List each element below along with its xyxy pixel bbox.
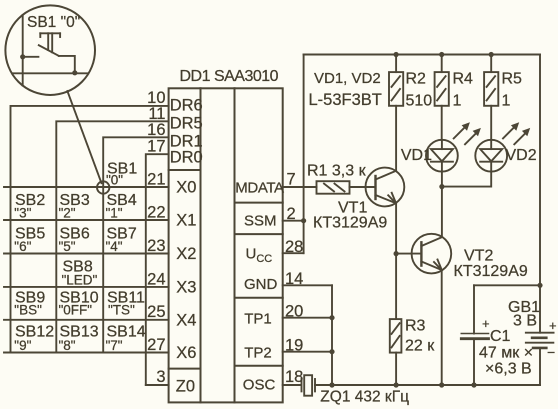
svg-text:Z0: Z0: [176, 377, 195, 395]
svg-text:DR5: DR5: [170, 114, 203, 132]
svg-text:20: 20: [285, 302, 303, 320]
node: dot at right rail: [537, 283, 542, 288]
wire: VD1 cathode down: [441, 172, 443, 237]
wire: Ucc pin 28: [283, 252, 304, 254]
wire: X2 row: [4, 253, 169, 255]
svg-text:VD1: VD1: [401, 147, 432, 164]
svg-text:X4: X4: [176, 311, 196, 329]
svg-text:TP1: TP1: [244, 311, 272, 328]
node: dot R5 rail: [489, 52, 494, 57]
svg-text:GND: GND: [244, 276, 278, 293]
wire: bottom rail: [315, 384, 540, 386]
svg-text:КТ3129А9: КТ3129А9: [313, 215, 387, 232]
svg-text:"0": "0": [106, 173, 123, 188]
wire: TP2 pin 19: [283, 351, 332, 353]
svg-text:X2: X2: [176, 245, 196, 263]
wire: X6 row: [4, 352, 169, 354]
wire: R4 to rail: [441, 55, 443, 73]
wire: C1 top lead: [473, 285, 475, 333]
svg-text:"9": "9": [14, 338, 31, 353]
wire: X1 row: [4, 219, 169, 221]
svg-text:VT2: VT2: [464, 248, 493, 265]
svg-text:16: 16: [147, 121, 165, 139]
svg-text:24: 24: [147, 270, 165, 288]
LED VD2: [475, 122, 530, 171]
svg-text:SB1 "0": SB1 "0": [27, 14, 80, 31]
node: VT1-VT2-R3 junction: [394, 251, 399, 256]
wire: supply drop to pins 2 and 28: [303, 55, 305, 254]
resistor R2: [389, 72, 403, 106]
svg-text:VD2: VD2: [506, 147, 537, 164]
IC DD1 SAA3010 body: [169, 88, 283, 402]
node: dot R3 rail: [394, 382, 399, 387]
svg-text:"6": "6": [14, 239, 31, 254]
transistor VT2: [412, 234, 452, 274]
svg-text:510: 510: [406, 93, 433, 110]
wire: R1 to VT1 base: [350, 186, 376, 188]
transistor VT1: [366, 168, 405, 207]
wire: pointer line from magnifier to SB1 position: [67, 91, 101, 183]
svg-text:R3: R3: [405, 318, 426, 335]
svg-text:22: 22: [147, 203, 165, 221]
battery GB1: [526, 333, 554, 348]
wire: SSM pin 2: [283, 220, 304, 222]
resistor R1: [317, 181, 350, 194]
node: junction VT2 at rail: [439, 382, 444, 387]
svg-text:28: 28: [285, 238, 303, 256]
wire: R5 to rail: [490, 55, 492, 73]
svg-text:"TS": "TS": [108, 303, 135, 318]
svg-text:7: 7: [287, 171, 296, 189]
svg-text:UCC: UCC: [246, 246, 273, 266]
wire: VD2 cathode down and across: [442, 172, 491, 187]
svg-text:47 мк ×: 47 мк ×: [479, 345, 533, 362]
wire: right rail lower: [539, 348, 541, 385]
svg-text:×6,3 В: ×6,3 В: [485, 361, 532, 378]
wire: TP1 pin 20: [283, 317, 332, 319]
wire: R5 to VD2: [490, 106, 492, 140]
wire: DR0 pin 17 line: [146, 154, 169, 385]
node: junction at bottom rail: [329, 382, 334, 387]
magnifier circle (inset detail of SB1): [5, 5, 95, 95]
svg-text:27: 27: [147, 336, 165, 354]
svg-text:"BS": "BS": [14, 303, 42, 318]
svg-text:22 к: 22 к: [405, 338, 435, 355]
svg-text:R2: R2: [406, 71, 427, 88]
wire: R2 to rail: [395, 55, 397, 73]
svg-text:25: 25: [147, 303, 165, 321]
wire: right contact lead of SB1: [59, 56, 75, 73]
wire: magnified DR column segment: [22, 15, 24, 85]
wire: DR6 pin 10 line: [11, 106, 169, 353]
svg-text:19: 19: [285, 336, 303, 354]
svg-text:DR6: DR6: [170, 96, 203, 114]
svg-text:"2": "2": [59, 206, 76, 221]
switch SB1 push actuator: [40, 33, 60, 52]
wire: junction to R3: [395, 254, 397, 320]
svg-text:"0FF": "0FF": [59, 303, 93, 318]
wire: X0 row: [4, 186, 169, 188]
svg-text:"7": "7": [106, 338, 123, 353]
LED VD1: [426, 122, 481, 171]
wire: Z0 pin 3 line: [146, 384, 169, 386]
svg-text:"4": "4": [106, 239, 123, 254]
svg-text:3: 3: [156, 368, 165, 386]
node: dot R4 rail: [439, 52, 444, 57]
svg-text:X1: X1: [176, 212, 196, 230]
wire: VT2 collector to bottom rail: [441, 270, 443, 385]
wire: MDATA pin 7 to R1: [283, 186, 317, 188]
svg-text:OSC: OSC: [243, 377, 276, 394]
node: junction pin19: [329, 349, 334, 354]
wire: X4 row: [4, 319, 169, 321]
svg-text:КТ3129А9: КТ3129А9: [454, 263, 528, 280]
svg-text:MDATA: MDATA: [235, 179, 284, 196]
svg-text:SSM: SSM: [244, 213, 277, 230]
wire: left contact lead of SB1: [23, 56, 39, 58]
wire: ground group vertical: [331, 285, 333, 385]
svg-text:R4: R4: [453, 71, 474, 88]
wire: right rail upper: [539, 55, 541, 333]
svg-text:VD1, VD2: VD1, VD2: [314, 70, 381, 87]
resistor R3: [390, 319, 402, 353]
wire: C1 branch horizontal: [474, 284, 540, 286]
wire: C1 bottom lead: [473, 339, 475, 385]
crystal ZQ1: [302, 375, 316, 396]
svg-text:L-53F3BT: L-53F3BT: [309, 91, 382, 109]
wire: DR1 pin 16 line: [103, 137, 168, 352]
svg-text:1: 1: [453, 93, 462, 110]
resistor R5: [484, 72, 498, 106]
svg-text:DR1: DR1: [170, 132, 203, 150]
wire: top power rail: [304, 54, 540, 56]
svg-text:X6: X6: [176, 344, 196, 362]
svg-text:"8": "8": [59, 338, 76, 353]
svg-text:17: 17: [147, 138, 165, 156]
svg-text:ZQ1 432 кГц: ZQ1 432 кГц: [320, 389, 409, 406]
node: junction at pin 2: [301, 218, 306, 223]
svg-text:18: 18: [285, 368, 303, 386]
svg-text:TP2: TP2: [244, 344, 272, 361]
svg-text:"LED": "LED": [62, 273, 98, 288]
svg-text:23: 23: [147, 237, 165, 255]
svg-text:R5: R5: [502, 71, 523, 88]
wire: GND pin 14: [283, 284, 332, 286]
node: dot C1 rail: [471, 382, 476, 387]
svg-text:"5": "5": [59, 239, 76, 254]
node: junction pin20: [329, 315, 334, 320]
wire: R4 to VD1: [441, 106, 443, 140]
svg-text:X3: X3: [176, 278, 196, 296]
svg-text:2: 2: [287, 205, 296, 223]
svg-text:X0: X0: [176, 179, 196, 197]
wire: R2 bottom to VT1: [395, 106, 397, 171]
svg-text:21: 21: [147, 170, 165, 188]
wire: VT1 to junction: [395, 203, 397, 253]
svg-text:+: +: [482, 316, 490, 331]
svg-text:"3": "3": [14, 206, 31, 221]
node: dot R2 rail: [394, 52, 399, 57]
svg-text:+: +: [549, 318, 557, 333]
wire: DR5 pin 11 line: [56, 121, 168, 352]
svg-text:DD1 SAA3010: DD1 SAA3010: [180, 68, 279, 85]
wire: OSC pin 18 stub: [283, 384, 301, 386]
wire: junction to VT2 base: [396, 253, 421, 255]
svg-text:DR0: DR0: [170, 149, 203, 167]
node: SB1 position circle on matrix: [97, 181, 109, 193]
switch SB1 moving contact lever: [39, 45, 59, 56]
svg-text:14: 14: [285, 270, 303, 288]
svg-text:3 В: 3 В: [513, 313, 537, 330]
svg-text:1: 1: [502, 93, 511, 110]
svg-text:"1": "1": [106, 206, 123, 221]
resistor R4: [435, 72, 449, 106]
node: junction dot on row wire: [72, 70, 77, 75]
node: VD junction: [439, 184, 444, 189]
capacitor C1: [461, 334, 488, 339]
wire: magnified X0 row segment: [12, 72, 88, 74]
svg-text:C1: C1: [490, 328, 511, 345]
wire: R3 to rail: [395, 353, 397, 385]
wire: X3 row: [4, 286, 169, 288]
node: junction dot on column wire: [20, 54, 25, 59]
svg-text:R1 3,3 к: R1 3,3 к: [307, 163, 367, 180]
svg-text:−: −: [547, 344, 555, 360]
